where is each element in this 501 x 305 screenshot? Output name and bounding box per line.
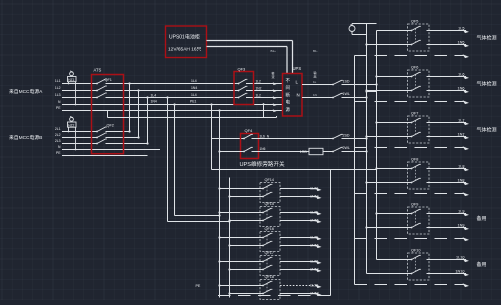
- ATS enclosure (dual-supply changeover cabinet): [92, 68, 124, 154]
- breaker QF1: [96, 78, 112, 98]
- wire feeder A N: [58, 100, 282, 104]
- wire output 1L16: [280, 236, 322, 240]
- breaker QF7 branch: [365, 111, 429, 143]
- wire bypass L to bus: [342, 137, 368, 139]
- svg-text:流: 流: [272, 74, 275, 79]
- svg-text:1N17: 1N17: [310, 268, 319, 272]
- wire PE branch QF5: [355, 54, 470, 58]
- breaker QF14 branch: [218, 178, 280, 202]
- voltage monitor HZ1: [68, 71, 77, 106]
- wire bypass N input: [220, 151, 245, 153]
- svg-text:1L5: 1L5: [458, 26, 464, 30]
- svg-text:1N4: 1N4: [151, 100, 157, 104]
- svg-text:1L2: 1L2: [55, 86, 61, 90]
- svg-text:QF18: QF18: [265, 275, 275, 279]
- wire UPS output N: [302, 93, 333, 98]
- svg-text:出: 出: [314, 74, 317, 79]
- wire feeder B 2L2: [55, 133, 139, 137]
- svg-text:HZ2: HZ2: [68, 123, 74, 127]
- svg-text:PE: PE: [196, 284, 201, 288]
- disconnect switch 1SD (L): [332, 79, 350, 85]
- wire output 1N9: [429, 223, 469, 230]
- wire riser QF2 output to phase 3 junction: [146, 96, 148, 144]
- wire bottom PE dashed: [218, 295, 331, 297]
- wire drop phase to bottom panel bus 2: [166, 96, 230, 222]
- wire riser QF2 output to phase 1 junction: [128, 82, 130, 132]
- svg-text:1L17: 1L17: [310, 260, 318, 264]
- svg-text:2WL: 2WL: [343, 146, 350, 150]
- svg-text:1N18: 1N18: [310, 292, 319, 296]
- svg-text:1N6: 1N6: [260, 147, 266, 151]
- wire PE branch QF8: [355, 192, 470, 196]
- svg-text:1L16: 1L16: [310, 236, 318, 240]
- svg-text:电: 电: [286, 99, 291, 105]
- svg-text:1L9: 1L9: [458, 209, 464, 213]
- wire bypass L input: [212, 138, 245, 140]
- svg-text:1L6: 1L6: [458, 72, 464, 76]
- wire tap PE to QF4 N-pole / bottom column feed: [218, 109, 220, 152]
- wire output 1L5: [429, 26, 469, 33]
- svg-text:N: N: [297, 93, 300, 98]
- svg-text:2L2: 2L2: [55, 133, 61, 137]
- svg-text:QF4: QF4: [245, 128, 254, 133]
- svg-text:1N16: 1N16: [310, 244, 319, 248]
- wire feeder B PE: [56, 151, 148, 155]
- svg-text:B1-: B1-: [313, 49, 318, 53]
- UPS U1 (不间断电源装置, red highlight): [283, 66, 303, 116]
- svg-text:1N14: 1N14: [310, 195, 319, 199]
- wire output 1L10: [429, 255, 469, 262]
- breaker QF2: [96, 124, 114, 145]
- svg-text:2L1: 2L1: [55, 127, 61, 131]
- breaker QF15 branch: [218, 202, 280, 226]
- breaker QF5 branch: [365, 19, 429, 51]
- svg-text:12V/65AH 16只: 12V/65AH 16只: [168, 47, 202, 53]
- wire L to bus: [342, 83, 378, 92]
- svg-text:QF7: QF7: [411, 111, 418, 115]
- svg-text:2L3: 2L3: [55, 139, 61, 143]
- wire bypass N to fuse: [252, 151, 310, 153]
- svg-text:UPS维修旁路开关: UPS维修旁路开关: [240, 160, 285, 168]
- wire output 1N5: [429, 40, 469, 47]
- svg-text:1L7: 1L7: [458, 118, 464, 122]
- svg-text:间: 间: [286, 84, 290, 91]
- wire feeder A 1L3: [55, 93, 283, 97]
- wire feeder B N: [58, 145, 160, 149]
- wire output 1L6: [429, 72, 469, 79]
- svg-text:QF15: QF15: [265, 202, 275, 206]
- svg-text:1N15: 1N15: [310, 219, 319, 223]
- wire feeder B 2L1: [55, 127, 130, 131]
- svg-text:1L: 1L: [313, 80, 317, 84]
- svg-text:断: 断: [286, 91, 291, 98]
- wire output 1N18: [280, 292, 322, 296]
- breaker QF9 branch: [365, 202, 429, 234]
- svg-text:源: 源: [286, 106, 291, 113]
- wire PE run to UPS (lower): [108, 103, 277, 117]
- svg-text:QF10: QF10: [411, 248, 421, 252]
- breaker QF10 branch: [367, 248, 430, 280]
- wire feeder A 1L2: [55, 86, 283, 90]
- wire output 1N8: [429, 178, 469, 185]
- wire output 1L14: [280, 187, 322, 191]
- svg-text:ATS: ATS: [94, 68, 102, 73]
- bus L (output live busbar): [376, 31, 378, 260]
- indicator lamp HL at output bus: [349, 24, 377, 35]
- svg-text:1L4: 1L4: [191, 79, 197, 83]
- svg-text:UPS01电池柜: UPS01电池柜: [169, 34, 200, 41]
- svg-text:1L4: 1L4: [191, 93, 197, 97]
- svg-text:1L15: 1L15: [310, 211, 318, 215]
- wire PE branch QF7: [355, 146, 470, 150]
- svg-text:2SD: 2SD: [343, 134, 350, 138]
- svg-text:备用: 备用: [477, 215, 487, 222]
- wire battery - to UPS: [207, 47, 318, 75]
- breaker QF16 branch: [218, 227, 280, 251]
- breaker QF3 (UPS input breaker, red highlight): [234, 67, 254, 105]
- wire riser QF2 output to phase 2 junction: [137, 89, 139, 138]
- net labels after ATS junction: [151, 79, 198, 104]
- svg-text:气体检测: 气体检测: [477, 35, 497, 42]
- breaker QF4 (bypass, red highlight): [241, 128, 270, 159]
- wire output 1N17: [280, 268, 322, 272]
- disconnect switch 1WL (N): [332, 92, 350, 98]
- svg-text:1L4: 1L4: [151, 93, 157, 97]
- svg-text:1L2: 1L2: [256, 93, 262, 97]
- svg-text:1L18: 1L18: [310, 284, 318, 288]
- voltage monitor HZ2: [68, 116, 77, 150]
- svg-text:HZ1: HZ1: [68, 78, 74, 82]
- svg-text:PE1: PE1: [190, 100, 197, 104]
- svg-text:1N: 1N: [313, 93, 317, 97]
- svg-text:PE: PE: [56, 151, 61, 155]
- wire output 1L7: [429, 118, 469, 125]
- wire output 1L9: [429, 209, 469, 216]
- svg-text:1L6: 1L6: [260, 134, 266, 138]
- wire N to bus: [342, 96, 368, 98]
- wire drop N to bottom panel bus 1: [173, 103, 220, 216]
- svg-text:1L14: 1L14: [310, 187, 318, 191]
- wire output 1L15: [280, 211, 322, 215]
- breaker QF17 branch: [218, 251, 280, 275]
- wire tap N to bypass QF4 and bottom bus: [210, 103, 212, 169]
- wire link to bottom panel bus: [212, 169, 377, 171]
- wire output 1L18: [280, 284, 322, 288]
- wire PE branch QF9: [355, 237, 470, 241]
- wire output 1N14: [280, 195, 322, 199]
- svg-text:1WL: 1WL: [343, 92, 350, 96]
- wire battery + to UPS: [207, 41, 293, 75]
- wire output 1L8: [429, 164, 469, 171]
- disconnect switch 2WL (bypass N): [332, 146, 350, 152]
- wire PE branch QF6: [355, 100, 470, 104]
- svg-text:1SD: 1SD: [343, 79, 350, 83]
- breaker QF6 branch: [365, 65, 429, 97]
- svg-text:1N2: 1N2: [256, 86, 262, 90]
- svg-text:QF16: QF16: [265, 227, 275, 231]
- svg-text:气体检测: 气体检测: [477, 127, 497, 134]
- svg-text:1RD: 1RD: [300, 150, 308, 154]
- svg-text:1N4: 1N4: [191, 86, 197, 90]
- bus N (output neutral busbar): [366, 24, 368, 274]
- wire PE branch QF10: [355, 283, 470, 287]
- wire feeder B 2L3: [55, 139, 148, 143]
- svg-text:QF5: QF5: [411, 19, 418, 23]
- wire output 1L17: [280, 260, 322, 264]
- wire UPS output L: [302, 70, 333, 85]
- svg-text:QF6: QF6: [411, 65, 418, 69]
- terminal arrows into UPS: [272, 71, 277, 113]
- svg-text:QF2: QF2: [107, 124, 114, 128]
- svg-text:来自MCC电源A: 来自MCC电源A: [9, 88, 43, 95]
- svg-text:B1+: B1+: [271, 49, 277, 53]
- wire output 1N10: [429, 269, 469, 276]
- wire output 1N15: [280, 219, 322, 223]
- svg-text:QF14: QF14: [265, 178, 275, 182]
- svg-text:1L8: 1L8: [458, 164, 464, 168]
- svg-text:气体检测: 气体检测: [477, 81, 497, 88]
- svg-text:QF17: QF17: [265, 251, 275, 255]
- wire PE drop from bypass link: [330, 170, 332, 296]
- svg-text:1L3: 1L3: [55, 93, 61, 97]
- svg-text:1L1: 1L1: [55, 79, 61, 83]
- svg-text:备用: 备用: [477, 261, 487, 268]
- svg-text:来自MCC电源B: 来自MCC电源B: [9, 134, 42, 141]
- battery cabinet UPS01 (UPS01电池柜 12V/65AH 16只): [166, 26, 207, 58]
- wire feeder A 1L1: [55, 79, 283, 83]
- wire output 1N7: [429, 132, 469, 139]
- svg-text:QF3: QF3: [238, 67, 247, 72]
- svg-text:QF9: QF9: [411, 202, 418, 206]
- net labels QF3 output: [256, 79, 262, 97]
- disconnect switch 2SD (bypass L): [332, 134, 350, 140]
- fuse 1RD: [300, 148, 323, 154]
- svg-text:UPS: UPS: [293, 66, 302, 71]
- wire feeder A PE: [56, 106, 283, 110]
- wire output 1N16: [280, 244, 322, 248]
- svg-text:QF8: QF8: [411, 157, 418, 161]
- breaker QF18 branch: [218, 275, 280, 299]
- wire output 1N6: [429, 86, 469, 93]
- wire bypass L to switch: [252, 138, 334, 140]
- svg-text:1L2: 1L2: [256, 79, 262, 83]
- wire bypass N to bus: [342, 150, 368, 152]
- bottom panel bus 2 (N): [229, 178, 231, 298]
- wire fuse to switch: [323, 151, 333, 153]
- bus PE (earth busbar): [354, 56, 356, 285]
- breaker QF8 branch: [365, 157, 429, 189]
- svg-text:PE: PE: [56, 106, 61, 110]
- bottom panel bus 1 (L): [219, 152, 221, 298]
